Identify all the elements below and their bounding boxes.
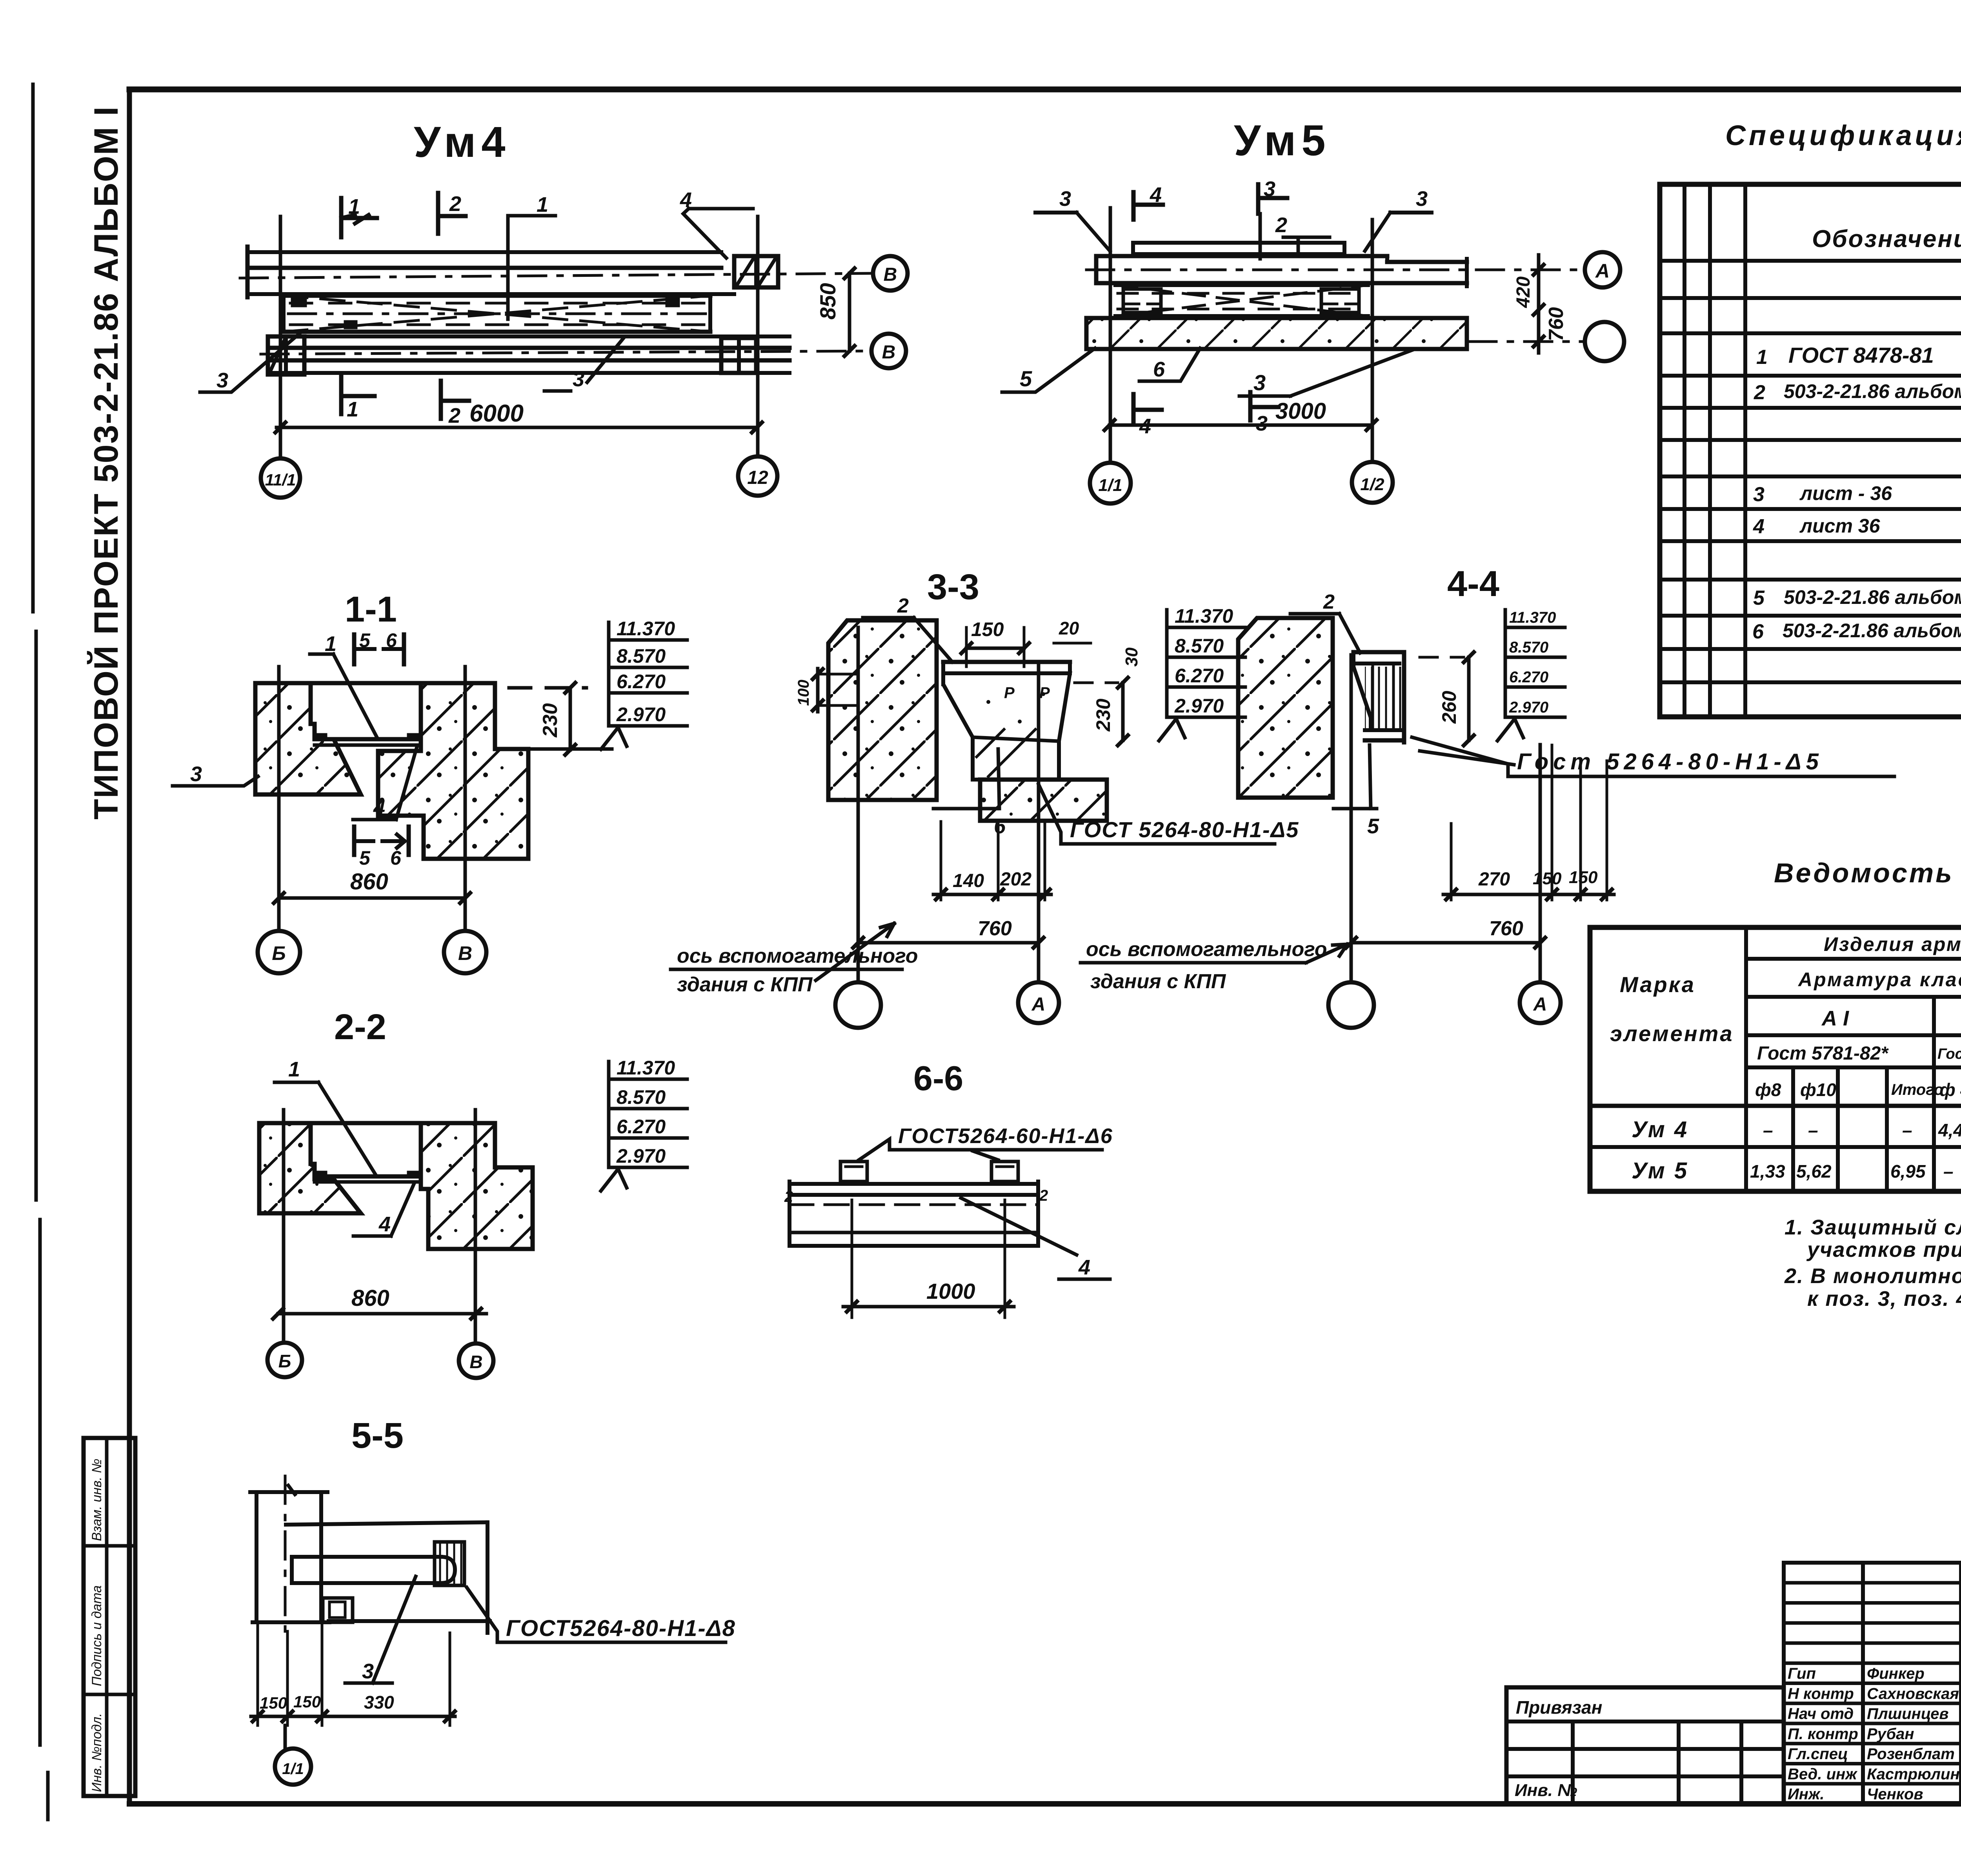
Ум4 dimension 850 vertical <box>815 268 855 356</box>
Ум5 leader poz.6 <box>1139 348 1200 381</box>
svg-text:420: 420 <box>1513 276 1534 308</box>
section 1-1 axis circle В <box>444 931 486 973</box>
svg-text:2-2: 2-2 <box>334 1007 386 1047</box>
section 2-2 axis circle Б <box>267 1343 302 1377</box>
svg-text:1/2: 1/2 <box>1360 475 1384 494</box>
svg-text:элемента: элемента <box>1610 1021 1734 1046</box>
svg-text:8.570: 8.570 <box>1509 639 1548 656</box>
Ум4 leader poz.4 <box>680 188 753 258</box>
svg-text:лист - 36: лист - 36 <box>1799 482 1892 504</box>
Ум4 monolithic section plan view title <box>414 118 511 166</box>
svg-text:1: 1 <box>1756 346 1768 369</box>
section 4-4 leader poz.5 <box>1333 745 1379 838</box>
svg-text:ГОСТ5264-80-Н1-Δ8: ГОСТ5264-80-Н1-Δ8 <box>506 1616 736 1641</box>
svg-text:3: 3 <box>573 367 584 391</box>
section 5-5 ГОСТ5264-80-Н1-Д8 label <box>467 1587 736 1642</box>
specification table headers <box>1812 202 1961 261</box>
section 5-5 column axis <box>285 1476 295 1631</box>
svg-text:6: 6 <box>1153 358 1165 381</box>
section 4-4 dimension 760 <box>1346 917 1545 948</box>
svg-text:2: 2 <box>1323 591 1335 613</box>
svg-text:Инв. №подл.: Инв. №подл. <box>89 1713 104 1792</box>
svg-text:Гост 5781-82*: Гост 5781-82* <box>1757 1043 1889 1064</box>
svg-text:140: 140 <box>953 871 984 891</box>
Ум4 bottom band right end block <box>721 338 756 373</box>
Ум4 top beam band <box>247 247 734 297</box>
svg-text:Кастрюлин: Кастрюлин <box>1867 1765 1960 1783</box>
section 5-5 leader poz.3 <box>345 1576 416 1683</box>
svg-text:Р: Р <box>1039 684 1050 702</box>
svg-text:В: В <box>884 264 897 285</box>
svg-text:1: 1 <box>288 1058 300 1081</box>
section 4-4 axis circle А <box>1520 982 1561 1023</box>
steel table row Ум5 <box>1632 1158 1961 1183</box>
svg-text:Нач отд: Нач отд <box>1788 1705 1854 1723</box>
Ум5 leader poz.2 <box>1275 213 1330 255</box>
Ум4 top band right end block <box>734 256 778 287</box>
Ум5 band centerline <box>1086 269 1583 271</box>
section 3-3 left concrete block <box>828 620 937 800</box>
section 2-2 leader poz.4 <box>353 1184 414 1236</box>
specification row 5: МН13 <box>1753 583 1961 609</box>
svg-text:3-3: 3-3 <box>927 567 979 607</box>
section 6-6 title <box>913 1059 963 1098</box>
svg-text:3: 3 <box>1253 370 1266 395</box>
specification table grid <box>1660 184 1961 717</box>
steel table grid <box>1590 927 1961 1191</box>
svg-text:2. В монолитном участке: 2. В монолитном участке УМ-4 стержни сет… <box>1784 1264 1961 1288</box>
left paper edge line <box>33 84 48 1820</box>
svg-text:5: 5 <box>1367 814 1379 838</box>
svg-text:Инв. №: Инв. № <box>1515 1781 1577 1800</box>
svg-text:Финкер: Финкер <box>1867 1665 1925 1682</box>
svg-text:2: 2 <box>1039 1187 1048 1204</box>
section 1-1 title <box>345 589 397 629</box>
svg-text:Ум 5: Ум 5 <box>1632 1158 1688 1183</box>
section 2-2 axis line Б <box>282 1110 286 1343</box>
svg-text:Взам. инв. №: Взам. инв. № <box>89 1459 104 1541</box>
Ум4 bottom band left end block <box>268 336 304 374</box>
svg-text:–: – <box>1943 1161 1954 1182</box>
specification row 3: лист-36 <box>1753 481 1961 506</box>
section 3-3 lower concrete block <box>980 780 1107 821</box>
svg-text:Р: Р <box>1004 684 1015 702</box>
section 4-4 ГОСТ 5264-80-Н1-Д5 label <box>1412 737 1894 776</box>
svg-text:здания с КПП: здания с КПП <box>1090 970 1226 993</box>
svg-text:ТИПОВОЙ ПРОЕКТ 503-2-21.86: ТИПОВОЙ ПРОЕКТ 503-2-21.86 АЛЬБОМ I <box>87 106 125 820</box>
svg-text:6.270: 6.270 <box>617 671 666 693</box>
left margin stamp boxes (Взам.инв., Подпись и дата, Инв.№подл.) <box>84 1438 135 1796</box>
svg-text:участков принят 10 мм.: участков принят 10 мм. <box>1806 1238 1961 1262</box>
svg-text:3000: 3000 <box>1275 398 1326 424</box>
svg-text:2.970: 2.970 <box>616 1145 666 1167</box>
section 3-3 leader poz.2 <box>863 594 952 662</box>
section 6-6 left clamp <box>840 1162 867 1182</box>
svg-text:Гип: Гип <box>1788 1665 1816 1682</box>
section 5-5 anchor bar poz.3 <box>292 1557 455 1583</box>
section 6-6 dimension 1000 <box>843 1200 1014 1318</box>
svg-text:–: – <box>1763 1120 1773 1140</box>
svg-text:150: 150 <box>1569 868 1598 887</box>
svg-text:ось вспомогательного: ось вспомогательного <box>1086 938 1327 961</box>
svg-text:4: 4 <box>378 1212 391 1236</box>
svg-text:270: 270 <box>1478 869 1510 890</box>
svg-text:4: 4 <box>1150 183 1162 207</box>
svg-text:Обозначение: Обозначение <box>1812 225 1961 253</box>
svg-text:–: – <box>1808 1120 1818 1140</box>
section 1-1 right concrete block <box>378 683 528 859</box>
svg-text:Изделия арматурные: Изделия арматурные <box>1824 933 1961 955</box>
svg-text:1. Защитный слой бетона дл: 1. Защитный слой бетона для рабочей арма… <box>1785 1216 1961 1239</box>
Ум5 dimension 420 760 vertical <box>1513 255 1568 353</box>
section 1-1 dimension 860 <box>274 869 470 903</box>
Ум4 section cut mark 1 bottom <box>341 376 375 421</box>
note 2: в монолитном участке УМ-4 <box>1784 1264 1961 1311</box>
specification table heading <box>1725 120 1961 151</box>
svg-text:760: 760 <box>1489 917 1523 940</box>
Ум5 section cut mark 4 top <box>1133 183 1163 220</box>
svg-text:760: 760 <box>978 917 1012 940</box>
Ум5 section cut mark 3 top mid <box>1258 177 1287 259</box>
svg-text:150: 150 <box>260 1694 287 1712</box>
svg-text:150: 150 <box>971 618 1004 640</box>
section 1-1 axis line Б <box>277 667 281 931</box>
svg-text:3: 3 <box>190 762 202 786</box>
section 4-4 dimension 260 vertical <box>1438 652 1474 745</box>
section 1-1 leader poz.3 <box>173 762 258 786</box>
svg-text:202: 202 <box>1000 869 1031 890</box>
section 4-4 axis line left <box>1350 655 1353 982</box>
svg-text:В: В <box>458 942 472 964</box>
section 1-1 mesh plate <box>315 734 421 745</box>
section 2-2 elevation marks <box>601 1057 687 1191</box>
section 3-3 ГОСТ 5264-80-Н1-Д5 label <box>1039 784 1299 844</box>
svg-text:8.570: 8.570 <box>617 1086 666 1108</box>
section 3-3 axis line А <box>1037 663 1041 982</box>
svg-text:6-6: 6-6 <box>913 1059 963 1098</box>
svg-text:А: А <box>1595 260 1610 282</box>
section 3-3 dimension 760 <box>853 917 1044 948</box>
section 4-4 dashed level line <box>1420 656 1464 659</box>
svg-text:20: 20 <box>1059 618 1079 638</box>
svg-text:Гост 5264-80-Н1-Δ5: Гост 5264-80-Н1-Δ5 <box>1517 749 1823 774</box>
svg-text:В: В <box>882 342 896 363</box>
Ум5 section cut mark 4 bottom <box>1133 394 1162 438</box>
section 5-5 column outline <box>250 1492 329 1622</box>
Ум5 monolithic zone with X bracing <box>1115 285 1368 316</box>
svg-text:2.970: 2.970 <box>1509 699 1548 716</box>
section 2-2 right concrete block <box>421 1123 533 1249</box>
svg-text:6.270: 6.270 <box>1175 665 1224 687</box>
svg-text:П. контр: П. контр <box>1788 1725 1858 1743</box>
svg-text:1-1: 1-1 <box>345 589 397 629</box>
Ум5 right angle detail <box>1321 289 1359 313</box>
svg-text:503-2-21.86 альбом IV: 503-2-21.86 альбом IV <box>1784 586 1961 608</box>
svg-text:здания с КПП: здания с КПП <box>677 973 813 996</box>
Ум5 top plate <box>1133 243 1344 254</box>
svg-text:ось вспомогательного: ось вспомогательного <box>677 945 918 967</box>
section 4-4 elevation marks <box>1497 609 1565 741</box>
specification row 4: лист 36 <box>1753 514 1961 538</box>
svg-text:11.370: 11.370 <box>617 1057 675 1079</box>
svg-text:8.570: 8.570 <box>1175 635 1224 657</box>
svg-text:ф8: ф8 <box>1755 1080 1781 1100</box>
svg-text:Ум4: Ум4 <box>414 118 511 166</box>
section 5-5 title <box>351 1416 404 1456</box>
section 5-5 axis circle 1/1 <box>275 1725 311 1785</box>
steel table headers <box>1610 931 1961 1103</box>
section 6-6 end marks <box>784 1187 1048 1205</box>
svg-text:11.370: 11.370 <box>1175 605 1233 627</box>
svg-text:Б: Б <box>278 1351 291 1371</box>
Ум5 concrete slab <box>1086 318 1467 349</box>
svg-text:Б: Б <box>272 942 286 964</box>
Ум5 axis circle lower empty <box>1469 322 1624 361</box>
svg-text:11.370: 11.370 <box>617 618 675 640</box>
svg-text:к поз. 3, поз. 4 и закладн: к поз. 3, поз. 4 и закладному изделию ри… <box>1807 1287 1961 1311</box>
Ум5 monolithic section plan view <box>1234 116 1331 165</box>
section 1-1 elevation marks 11.370 8.570 6.270 2.970 <box>601 618 687 749</box>
svg-text:2: 2 <box>897 594 909 617</box>
svg-text:Плшинцев: Плшинцев <box>1867 1705 1949 1723</box>
section 4-4 axis line А <box>1539 745 1542 982</box>
svg-text:2.970: 2.970 <box>616 703 666 725</box>
Ум5 axis line 1/2 <box>1371 220 1374 462</box>
section 5-5 dimensions 150 150 330 <box>251 1622 455 1725</box>
section 1-1 floor top line <box>311 681 421 685</box>
svg-text:6,95: 6,95 <box>1890 1161 1926 1182</box>
section 2-2 floor top line <box>311 1121 421 1125</box>
svg-text:Инж.: Инж. <box>1788 1786 1825 1803</box>
svg-text:5: 5 <box>359 847 371 869</box>
svg-text:5: 5 <box>359 629 371 651</box>
svg-text:Гост6727-80: Гост6727-80 <box>1937 1046 1961 1062</box>
svg-text:5-5: 5-5 <box>351 1416 404 1456</box>
section 3-3 beam body <box>943 673 1070 780</box>
svg-text:230: 230 <box>539 703 562 738</box>
svg-text:Ум5: Ум5 <box>1234 116 1331 165</box>
section 5-5 hatched weld block <box>435 1542 464 1585</box>
svg-text:1/1: 1/1 <box>1098 476 1122 495</box>
Ум4 axis circle В upper <box>873 256 908 291</box>
svg-text:2: 2 <box>1754 381 1765 404</box>
Ум4 leader poz.3 left <box>200 331 302 392</box>
section 3-3 title <box>927 567 979 607</box>
svg-text:330: 330 <box>364 1692 394 1712</box>
svg-text:6: 6 <box>1752 620 1764 643</box>
svg-text:1,33: 1,33 <box>1750 1161 1785 1182</box>
svg-text:ГОСТ 8478-81: ГОСТ 8478-81 <box>1788 343 1934 367</box>
section 3-3 axis circle left <box>835 982 881 1028</box>
section 1-1 axis circle Б <box>258 931 300 973</box>
Ум5 left angle detail <box>1123 289 1161 313</box>
section 3-3 axis circle А <box>1018 982 1059 1023</box>
section 5-5 beam outline <box>286 1522 490 1633</box>
svg-text:4,42: 4,42 <box>1938 1120 1961 1140</box>
axis note 2: ось вспомогательного здания с КПП <box>1081 938 1347 993</box>
svg-text:Ченков: Ченков <box>1867 1786 1923 1803</box>
svg-text:ф10: ф10 <box>1800 1080 1836 1100</box>
section 2-2 title <box>334 1007 386 1047</box>
svg-text:Итого: Итого <box>1891 1081 1943 1098</box>
Ум5 axis circle 1/1 <box>1090 463 1131 504</box>
Ум4 axis circle 12 <box>738 456 777 496</box>
section 2-2 axis line В <box>474 1110 477 1344</box>
section 1-1 left concrete block <box>255 683 361 794</box>
svg-text:4-4: 4-4 <box>1447 564 1499 604</box>
svg-text:1: 1 <box>537 193 548 216</box>
Ум4 dimension 6000 <box>275 400 762 433</box>
svg-text:А I: А I <box>1821 1007 1849 1030</box>
Ум4 axis line 11/1 <box>279 216 282 458</box>
section 1-1 leader poz.1 <box>310 632 377 738</box>
svg-text:760: 760 <box>1545 307 1568 341</box>
Ум5 axis line 1/1 <box>1109 208 1112 463</box>
section 1-1 dimension 230 vertical <box>498 683 612 755</box>
Ум4 section cut mark 2 top <box>438 192 466 234</box>
svg-text:Арматура класса: Арматура класса <box>1797 969 1961 991</box>
section 4-4 axis circle left <box>1328 982 1374 1028</box>
svg-text:2: 2 <box>449 192 461 216</box>
Ум4 monolithic zone with X bracing <box>284 296 710 332</box>
section 2-2 leader poz.1 <box>275 1058 376 1175</box>
specification row 6: МН14 <box>1752 616 1961 643</box>
svg-text:1: 1 <box>347 398 358 421</box>
svg-text:лист 36: лист 36 <box>1799 515 1881 537</box>
svg-text:3: 3 <box>1753 483 1765 506</box>
Ум5 leader poz.3 slab <box>1239 350 1412 396</box>
svg-text:А: А <box>1031 994 1046 1015</box>
Ум5 section cut mark 3 top left <box>1035 187 1110 251</box>
vertical album title: ТИПОВОЙ ПРОЕКТ 503-2-21.86 АЛЬБОМ I <box>87 106 125 820</box>
section 3-3 beam top plate <box>943 662 1070 684</box>
svg-text:Марка: Марка <box>1620 972 1695 997</box>
section 3-3 axis line left <box>857 627 860 982</box>
section 3-3 dimension 100 left <box>795 669 856 712</box>
section 5-5 lower detail box <box>323 1598 353 1622</box>
svg-text:Рубан: Рубан <box>1867 1725 1914 1743</box>
Ум4 axis circle 11/1 <box>261 458 300 498</box>
svg-text:11.370: 11.370 <box>1509 609 1556 626</box>
svg-text:260: 260 <box>1438 691 1460 724</box>
svg-text:100: 100 <box>795 680 812 706</box>
section 1-1 dashed level line <box>509 686 586 690</box>
Ум5 section cut mark 3 top right <box>1365 187 1432 251</box>
signature table <box>1784 1563 1961 1804</box>
section 3-3 dimension 150 20 top <box>961 618 1091 667</box>
svg-text:503-2-21.86 альбом IV: 503-2-21.86 альбом IV <box>1784 380 1961 402</box>
svg-text:ф 4: ф 4 <box>1939 1080 1961 1100</box>
section 3-3 elevation marks <box>1159 605 1245 741</box>
svg-text:Сахновская: Сахновская <box>1867 1685 1959 1702</box>
svg-text:5,62: 5,62 <box>1796 1161 1832 1182</box>
Ум4 axis line 12 <box>756 216 760 456</box>
section 2-2 axis circle В <box>459 1343 493 1378</box>
svg-text:3: 3 <box>216 369 228 392</box>
section 6-6 ГОСТ5264-60-Н1-Д6 label <box>859 1124 1113 1160</box>
svg-text:1000: 1000 <box>926 1279 975 1303</box>
Ум5 dimension 3000 <box>1104 398 1377 430</box>
steel table heading: Ведомость расхода стали <box>1774 858 1961 888</box>
section 6-6 right clamp <box>991 1162 1018 1182</box>
svg-text:6.270: 6.270 <box>1509 669 1548 686</box>
section 4-4 leader poz.2 <box>1290 591 1360 653</box>
section 4-4 dimensions 270 150 150 <box>1443 745 1614 900</box>
привязан box <box>1506 1687 1784 1804</box>
note 1: защитный слой бетона <box>1785 1216 1961 1262</box>
svg-text:2: 2 <box>784 1188 793 1205</box>
svg-text:4: 4 <box>1753 515 1765 538</box>
section 1-1 leader poz.4 <box>353 748 417 820</box>
svg-text:8.570: 8.570 <box>617 645 666 667</box>
svg-text:3: 3 <box>1264 177 1275 201</box>
svg-text:2: 2 <box>1275 213 1287 237</box>
section 2-2 left concrete block <box>259 1123 361 1213</box>
Ум4 bottom band centerline <box>261 351 871 354</box>
svg-text:850: 850 <box>815 283 840 320</box>
svg-text:150: 150 <box>1533 869 1562 888</box>
Ум5 main band <box>1096 256 1467 286</box>
section 3-3 dimensions 140 202 <box>933 822 1051 900</box>
svg-text:Розенблат: Розенблат <box>1867 1745 1955 1763</box>
Ум5 axis circle 1/2 <box>1352 462 1393 503</box>
section 2-2 dimension 860 <box>273 1285 486 1319</box>
svg-text:1: 1 <box>325 632 337 656</box>
svg-text:Подпись и дата: Подпись и дата <box>89 1585 104 1686</box>
svg-text:Ум 4: Ум 4 <box>1632 1117 1688 1142</box>
svg-text:В: В <box>469 1352 482 1372</box>
Ум4 mesh leader poz.1 <box>508 193 555 319</box>
svg-text:12: 12 <box>747 467 768 488</box>
svg-text:Спецификация участков моно: Спецификация участков монолитных УМ 4 , … <box>1725 120 1961 151</box>
specification row 1: ГОСТ 8478-81 mesh <box>1756 338 1961 377</box>
svg-text:30: 30 <box>1122 647 1141 667</box>
svg-text:4: 4 <box>1078 1256 1090 1279</box>
Ум4 bottom beam band <box>269 336 789 373</box>
section 6-6 leader poz.4 <box>961 1198 1110 1279</box>
section 6-6 plate assembly <box>789 1182 1038 1246</box>
svg-text:Н контр: Н контр <box>1788 1685 1854 1702</box>
svg-text:Вед. инж: Вед. инж <box>1788 1765 1858 1783</box>
section 3-3 leader poz.6 <box>933 749 1006 838</box>
Ум4 top band centerline <box>240 273 873 278</box>
svg-text:2.970: 2.970 <box>1174 695 1224 717</box>
svg-text:1: 1 <box>348 195 360 218</box>
svg-text:6: 6 <box>390 847 402 869</box>
svg-text:Гл.спец: Гл.спец <box>1788 1745 1848 1763</box>
section 1-1 cut marks 5 6 top <box>354 629 404 664</box>
Ум5 section cut mark 3 bottom <box>1250 392 1279 435</box>
section 1-1 axis line В <box>464 667 467 931</box>
specification row 2: С11 <box>1754 378 1961 404</box>
Ум4 section cut mark 1 top <box>341 195 377 237</box>
svg-text:860: 860 <box>351 1285 389 1311</box>
section 3-3 dimension 230 vertical <box>1092 678 1128 745</box>
svg-text:Привязан: Привязан <box>1516 1697 1602 1718</box>
svg-text:6.270: 6.270 <box>617 1116 666 1138</box>
svg-text:4: 4 <box>373 796 385 820</box>
axis note 1: ось вспомогательного здания с КПП <box>671 923 918 996</box>
Ум5 axis circle А <box>1585 252 1620 287</box>
Ум5 leader poz.5 <box>1002 348 1095 392</box>
svg-text:2: 2 <box>448 404 460 427</box>
Ум4 weld detail marks <box>292 298 679 328</box>
svg-text:3: 3 <box>1059 187 1071 211</box>
svg-text:ГОСТ 5264-80-Н1-Δ5: ГОСТ 5264-80-Н1-Δ5 <box>1070 817 1299 842</box>
svg-text:ГОСТ5264-60-Н1-Δ6: ГОСТ5264-60-Н1-Δ6 <box>898 1124 1113 1148</box>
svg-text:1/1: 1/1 <box>282 1760 304 1778</box>
svg-text:3: 3 <box>362 1660 374 1683</box>
